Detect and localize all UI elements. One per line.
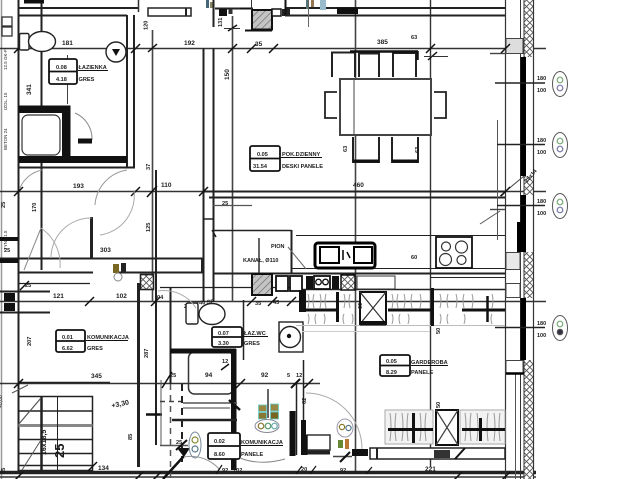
svg-text:94: 94	[205, 372, 213, 379]
svg-text:102: 102	[116, 293, 127, 300]
wall band y=191/197 from x=209 to 505	[203, 191, 505, 193]
svg-text:0.05: 0.05	[257, 152, 268, 158]
svg-text:170: 170	[32, 203, 38, 212]
svg-text:192: 192	[184, 40, 195, 47]
svg-text:12.5 GK-F: 12.5 GK-F	[3, 49, 8, 70]
svg-text:25: 25	[176, 440, 182, 446]
bottom wall stairs block	[0, 471, 536, 475]
bathroom1 bottom wall band y=157-167	[18, 167, 135, 169]
toilet 1	[20, 34, 30, 51]
bathroom1 right wall pair x=127/134	[126, 15, 128, 167]
wardrobe row y=292-326 (upper garderoba)	[308, 294, 493, 324]
svg-text:GRES: GRES	[87, 346, 103, 352]
svg-text:207: 207	[27, 337, 33, 346]
kitchen sink	[315, 243, 375, 268]
tick at 437,56	[428, 52, 437, 60]
sideboard bottom	[370, 448, 505, 459]
svg-text:0.05: 0.05	[386, 359, 397, 365]
black bar with text (337-357, 8-13)	[337, 8, 358, 15]
svg-text:287: 287	[144, 349, 150, 358]
svg-text:150: 150	[224, 69, 231, 80]
svg-text:100: 100	[537, 150, 546, 156]
label 0.02	[208, 433, 240, 459]
svg-text:60: 60	[358, 303, 364, 309]
svg-text:221: 221	[425, 466, 436, 473]
svg-text:63: 63	[343, 146, 349, 152]
stair diagonal direction lines	[12, 385, 28, 393]
window marker 3	[497, 194, 568, 219]
svg-text:63: 63	[415, 147, 421, 153]
cooktop	[436, 237, 472, 268]
svg-text:100: 100	[537, 333, 546, 339]
sill niches	[506, 39, 523, 54]
table	[340, 79, 431, 135]
svg-text:5: 5	[287, 373, 290, 379]
svg-text:180: 180	[537, 138, 546, 144]
svg-text:BETON 24: BETON 24	[3, 128, 8, 150]
lower walls around corridor 0.01	[0, 291, 50, 293]
svg-text:6.62: 6.62	[62, 346, 73, 352]
wall corner box left	[307, 435, 330, 450]
svg-text:PION: PION	[271, 244, 284, 250]
svg-text:193: 193	[73, 183, 84, 190]
door arc lower-left big	[24, 228, 41, 270]
thick dividers and rail	[305, 309, 337, 312]
toilet 2	[186, 303, 198, 324]
black box top x=219	[219, 9, 227, 16]
top chairs	[332, 53, 355, 78]
colored micro text x=205 top	[206, 0, 209, 8]
svg-text:16x18,5: 16x18,5	[41, 430, 48, 455]
svg-text:50: 50	[436, 402, 442, 408]
room label 0.08	[49, 59, 108, 84]
svg-text:37: 37	[146, 164, 152, 170]
svg-text:25: 25	[1, 468, 7, 474]
window marker left wall top	[2, 17, 12, 26]
chimney hatched box kitchen	[252, 274, 272, 295]
svg-text:IZOL. 15: IZOL. 15	[3, 92, 8, 110]
black post at garderoba corner	[299, 290, 306, 312]
radiator symbol colored	[267, 389, 269, 418]
dim line C (y=301.5)	[0, 301, 546, 303]
cut dimension text top-left	[24, 0, 44, 4]
svg-text:131: 131	[218, 18, 224, 27]
bathroom2 left inner x=170	[170, 287, 172, 384]
wardrobe left with hangers	[385, 410, 433, 444]
bottom wall center	[303, 451, 330, 455]
label	[380, 355, 410, 376]
wall pair x=203.5/213.5	[213, 0, 215, 27]
dashed lines	[160, 401, 183, 403]
door leaf diagonal bottom	[163, 456, 184, 479]
svg-text:0.08: 0.08	[56, 65, 67, 71]
wardrobe right with hangers	[460, 410, 505, 444]
X box	[436, 410, 458, 445]
svg-text:8.29: 8.29	[386, 370, 397, 376]
svg-text:100: 100	[537, 88, 546, 94]
svg-text:DESKI PANELE: DESKI PANELE	[282, 164, 323, 170]
svg-text:110: 110	[161, 182, 172, 189]
svg-text:180: 180	[537, 199, 546, 205]
svg-text:0.02: 0.02	[214, 439, 225, 445]
svg-text:TYNK 1.5: TYNK 1.5	[3, 230, 8, 250]
X-box middle	[360, 292, 386, 324]
svg-text:385: 385	[377, 39, 388, 46]
svg-text:31.54: 31.54	[253, 164, 268, 170]
vertical line x=258	[258, 238, 260, 274]
svg-text:0.01: 0.01	[62, 335, 73, 341]
svg-text:125: 125	[146, 223, 152, 232]
window marker 4	[495, 316, 568, 341]
svg-text:35: 35	[255, 301, 261, 307]
svg-text:100: 100	[537, 211, 546, 217]
svg-text:303: 303	[100, 247, 111, 254]
cabinet row below counter	[276, 276, 288, 291]
dim line B (y=191.5)	[0, 191, 546, 193]
hatch insulation strip	[524, 0, 534, 57]
shower cabin square	[189, 352, 234, 394]
svg-text:0.07: 0.07	[218, 331, 229, 337]
svg-text:KANAŁ, Ø110: KANAŁ, Ø110	[243, 258, 278, 264]
black corner at 230,405	[229, 400, 240, 410]
window black bars	[521, 57, 527, 176]
corridor right wall x=137-139	[137, 283, 140, 467]
svg-text:121: 121	[53, 293, 64, 300]
svg-text:92: 92	[261, 372, 269, 379]
svg-text:45: 45	[273, 300, 279, 306]
svg-text:92: 92	[340, 468, 346, 474]
kitchen counter top edge	[296, 235, 505, 237]
door arcs in corridor	[20, 170, 42, 188]
page left edge	[1, 0, 3, 479]
inner leaf lines	[505, 0, 507, 479]
stairs	[19, 397, 93, 471]
svg-text:92: 92	[222, 468, 228, 474]
side chairs	[325, 92, 337, 118]
svg-text:50: 50	[436, 328, 442, 334]
left outer wall inner line x=18	[18, 0, 20, 473]
svg-text:60: 60	[411, 255, 417, 261]
small vertical line x=138 top	[138, 0, 140, 12]
svg-text:180: 180	[537, 76, 546, 82]
svg-text:8.60: 8.60	[214, 452, 225, 458]
svg-text:20: 20	[301, 467, 307, 473]
dim line E bottom (y=477)	[0, 476, 536, 478]
colored text x=305-325	[306, 0, 309, 9]
left wall door marker (black)	[4, 293, 15, 301]
svg-text:25: 25	[52, 444, 67, 458]
wall y=283-287 bathroom2 top	[18, 283, 90, 285]
wall black segment x=290	[290, 411, 296, 456]
svg-text:25: 25	[222, 201, 228, 207]
svg-text:12: 12	[296, 373, 302, 379]
svg-text:PANELE: PANELE	[411, 370, 434, 376]
kitchen counter bottom y=268-272	[292, 268, 505, 270]
axis x=232	[232, 16, 234, 302]
window marker 1	[495, 72, 568, 97]
svg-text:4.18: 4.18	[56, 77, 67, 83]
washbasin circle	[106, 42, 126, 62]
horizontal line y=382-384 walls	[18, 382, 110, 384]
svg-text:181: 181	[62, 40, 73, 47]
window marker 2	[497, 133, 568, 158]
bathtub	[19, 106, 70, 160]
svg-text:+0,00: +0,00	[0, 395, 4, 408]
room walls bottom center x=296/303	[296, 384, 298, 455]
svg-text:25: 25	[1, 202, 7, 208]
svg-text:180: 180	[537, 321, 546, 327]
dim ticks and texts on line A y=48.5	[14, 44, 510, 53]
boxes right of chimney	[272, 9, 281, 16]
dim line A (y=48.5)	[0, 48, 546, 50]
bathroom2 right wall x=243	[243, 300, 245, 360]
svg-text:04: 04	[157, 295, 164, 301]
cross tick y=445 x=181	[160, 445, 188, 447]
svg-text:3.30: 3.30	[218, 341, 229, 347]
axis x=430	[430, 0, 432, 467]
svg-text:GRES: GRES	[79, 77, 95, 83]
svg-text:12: 12	[222, 359, 228, 365]
washing machine	[279, 322, 303, 352]
svg-text:341: 341	[26, 84, 33, 95]
svg-text:62: 62	[302, 398, 308, 404]
dim line D (y=383.5)	[0, 383, 320, 385]
bottom chairs	[353, 137, 379, 162]
black triangle door mark	[177, 448, 190, 457]
wall x=292	[291, 230, 293, 274]
svg-text:85: 85	[128, 434, 134, 440]
svg-text:102: 102	[233, 468, 242, 474]
radiator/door leaf rect top	[148, 8, 191, 16]
wall x=41	[41, 0, 43, 270]
svg-text:63: 63	[411, 35, 417, 41]
svg-text:35: 35	[255, 41, 263, 48]
door arc into garderoba	[306, 393, 362, 449]
door contact marker (colored)	[113, 264, 119, 273]
svg-text:345: 345	[91, 373, 102, 380]
door marker ellipse	[189, 432, 201, 458]
svg-text:GRES: GRES	[244, 341, 260, 347]
label 0.07	[212, 327, 242, 347]
label 0.01	[56, 330, 85, 352]
svg-text:460: 460	[353, 182, 364, 189]
svg-text:134: 134	[98, 465, 109, 472]
chimney hatched box top	[252, 10, 272, 30]
garderoba top wall	[296, 289, 505, 291]
svg-text:PANELE: PANELE	[241, 452, 264, 458]
svg-text:120: 120	[144, 21, 150, 30]
top wall lines	[18, 7, 138, 9]
colored marks + cross left of sideboard	[337, 419, 353, 437]
tick	[228, 25, 237, 31]
axis x=152 vertical dim in bathroom1	[152, 30, 154, 302]
wall band y=258-272 left	[0, 258, 204, 260]
small wall piece right of stairs	[146, 413, 162, 416]
door arc bathroom1	[75, 113, 92, 140]
wall stub x=67	[67, 55, 69, 104]
axis x=355	[355, 0, 357, 472]
